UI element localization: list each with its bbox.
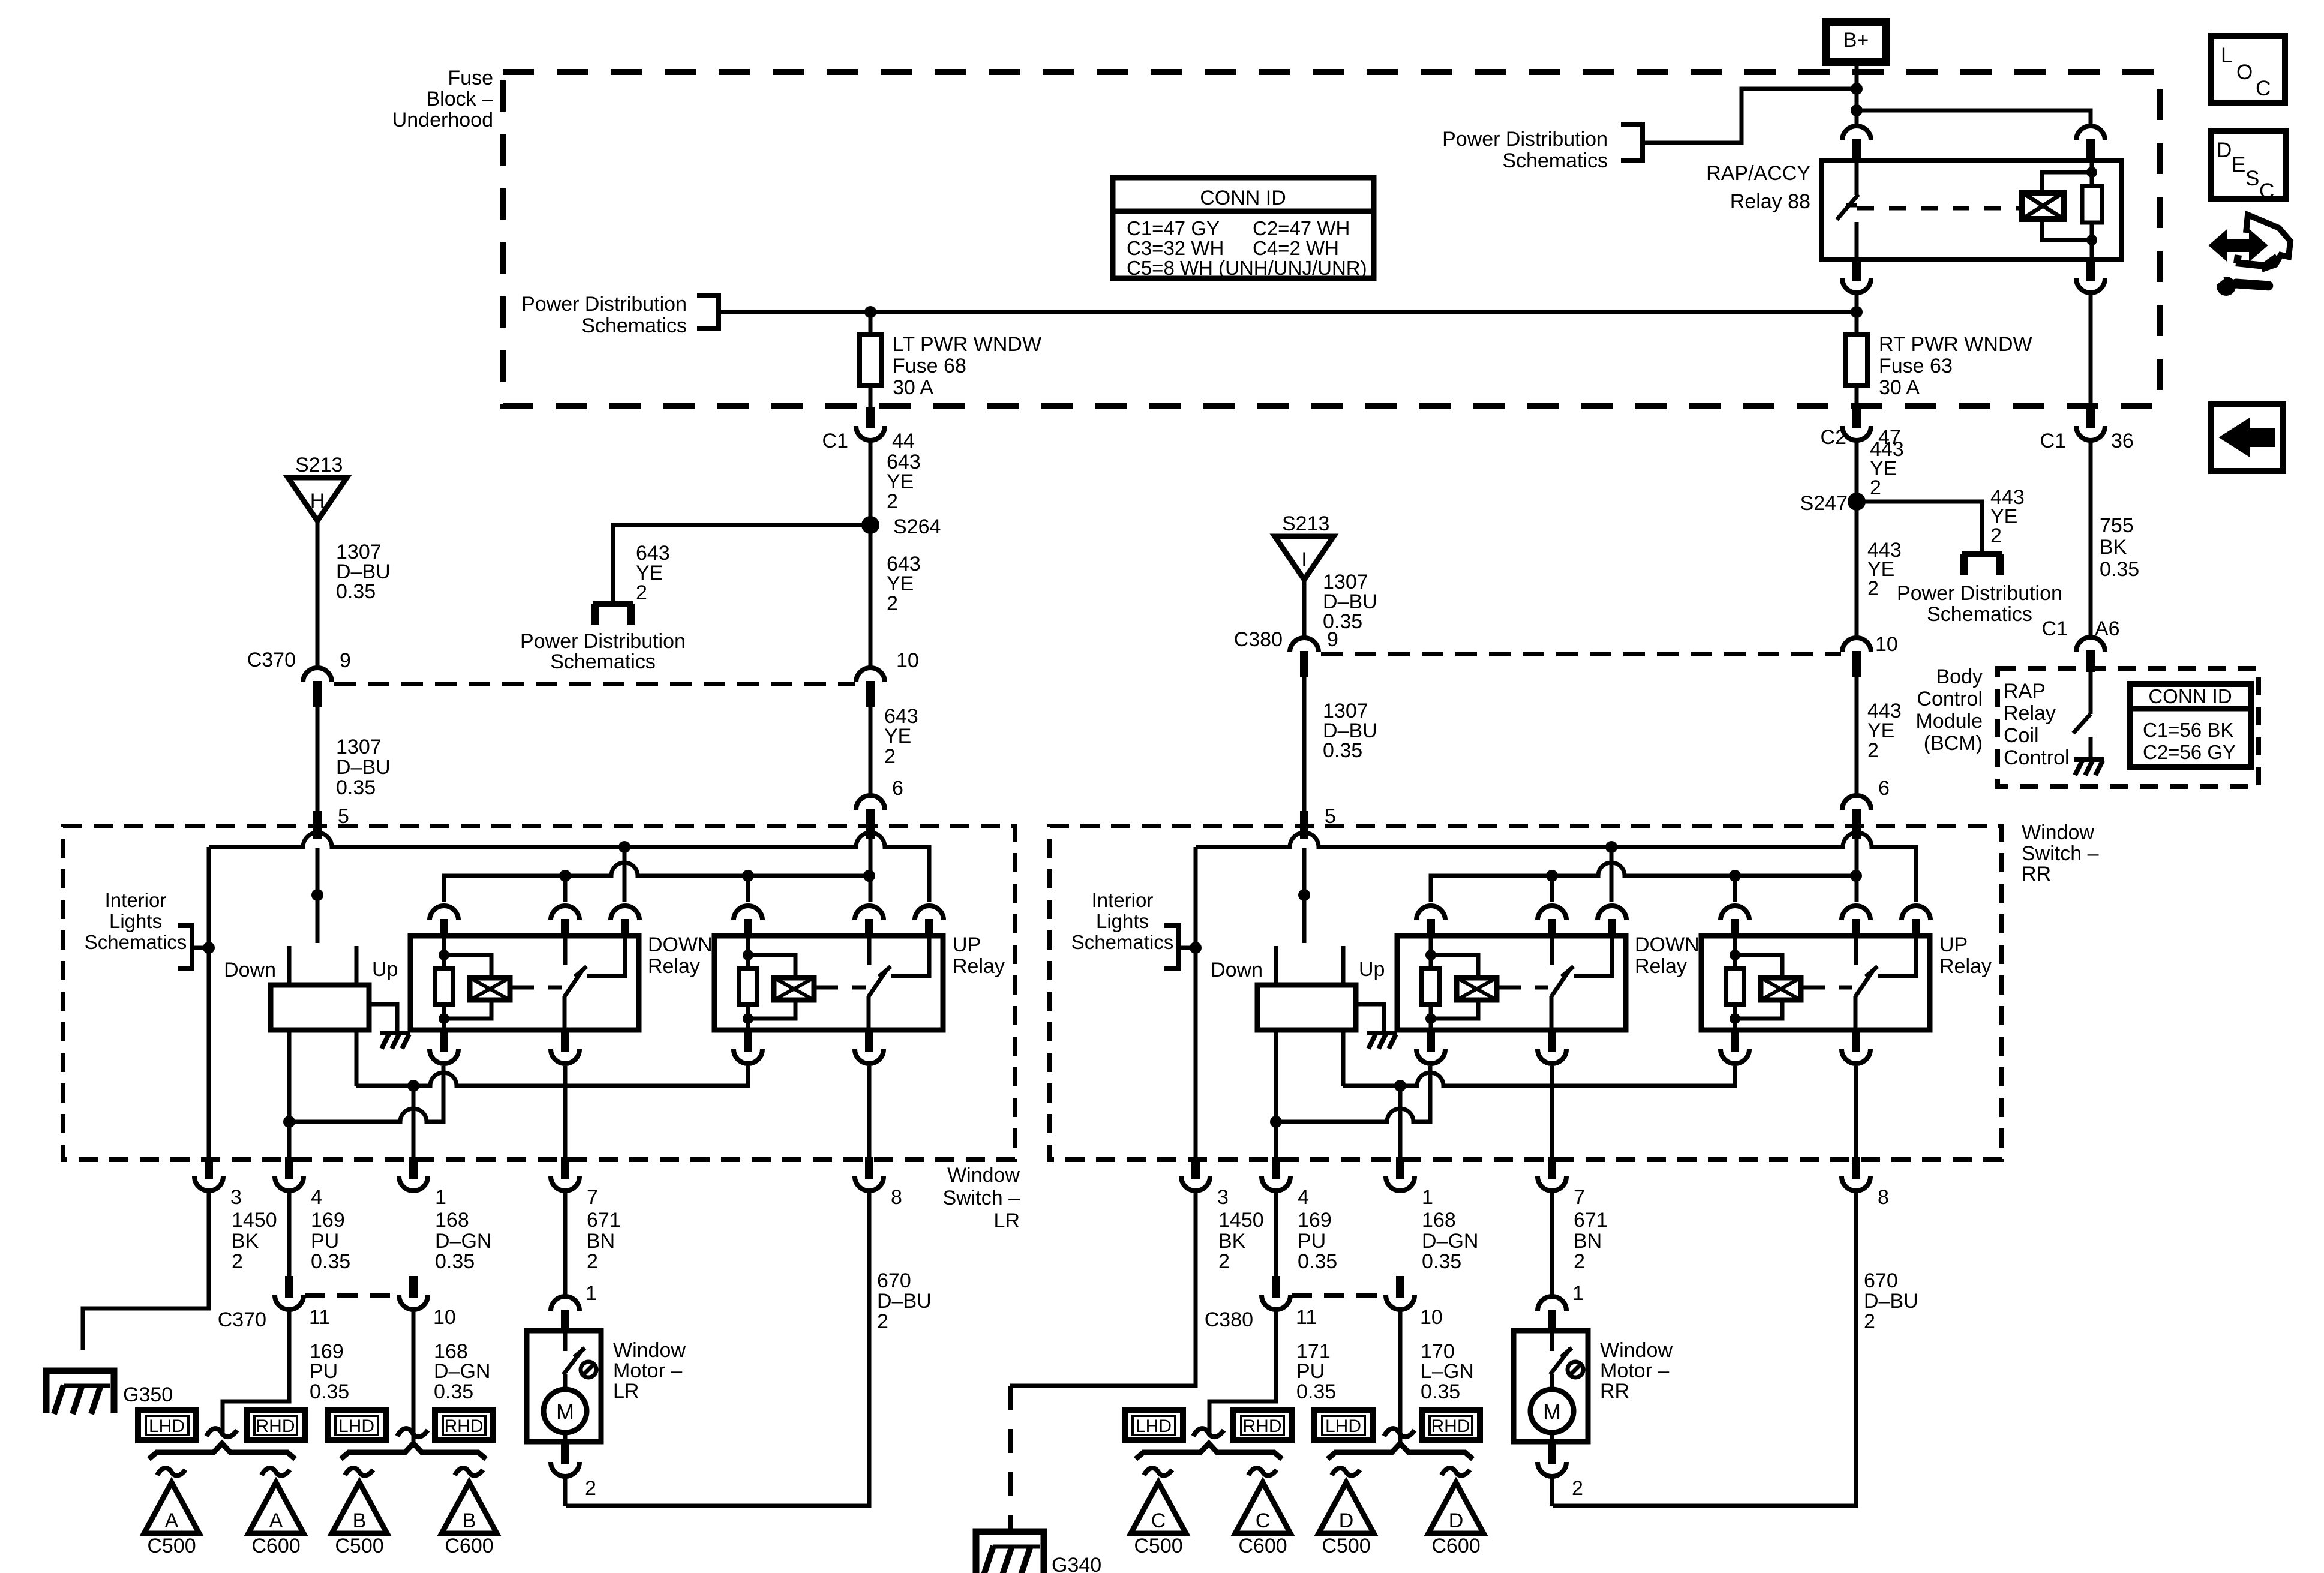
relay UP box (1701, 936, 1930, 1030)
svg-text:11: 11 (1296, 1306, 1317, 1329)
svg-text:DOWN: DOWN (1635, 933, 1700, 956)
wire 169 PU upper (1274, 1191, 1278, 1276)
wire rocker up leg (1341, 1030, 1346, 1086)
svg-text:1307: 1307 (336, 736, 382, 758)
brace 1 (149, 1443, 295, 1459)
svg-text:E: E (2232, 153, 2245, 176)
node relay feed (1851, 104, 1863, 116)
svg-text:2: 2 (232, 1250, 243, 1273)
window switch LR dashed box (63, 826, 1015, 1160)
svg-text:M: M (1543, 1400, 1561, 1424)
svg-text:Up: Up (372, 958, 398, 981)
splice S247 (1848, 493, 1866, 511)
svg-text:C500: C500 (147, 1535, 196, 1557)
relay UP actuator dashed link (814, 986, 822, 990)
ground G350 (46, 1371, 114, 1413)
svg-text:Power Distribution: Power Distribution (521, 293, 687, 316)
svg-text:36: 36 (2111, 430, 2134, 452)
svg-text:0.35: 0.35 (336, 580, 376, 603)
svg-text:Schematics: Schematics (1071, 931, 1174, 953)
svg-text:0.35: 0.35 (336, 776, 376, 799)
svg-text:0.35: 0.35 (435, 1250, 475, 1273)
svg-text:10: 10 (1875, 633, 1898, 656)
svg-text:C5=8 WH (UNH/UNJ/UNR): C5=8 WH (UNH/UNJ/UNR) (1127, 257, 1367, 279)
node LT fuse tap (864, 306, 876, 318)
window switch pins bottom (205, 1157, 213, 1179)
svg-text:G350: G350 (123, 1383, 173, 1406)
svg-text:44: 44 (892, 430, 915, 452)
brace 2 (341, 1443, 486, 1459)
brace 1 (1136, 1443, 1282, 1459)
relay DOWN switch (1550, 937, 1554, 965)
svg-text:C3=32 WH: C3=32 WH (1127, 237, 1224, 259)
svg-text:2: 2 (1218, 1250, 1230, 1273)
svg-text:10: 10 (433, 1306, 456, 1329)
window motor RR box (1514, 1331, 1588, 1442)
relay 88 switch (1855, 161, 1859, 195)
node pin6 feed (863, 870, 875, 882)
wire rocker up leg (355, 1030, 359, 1086)
svg-text:0.35: 0.35 (434, 1380, 473, 1403)
node up relay coil feed (742, 870, 754, 882)
svg-text:BK: BK (2100, 536, 2127, 559)
relay DOWN resistor (442, 937, 446, 969)
icon navigation hand (2211, 233, 2265, 258)
svg-text:(BCM): (BCM) (1924, 732, 1983, 755)
node pin1 tap (407, 1080, 419, 1092)
wire down leg to down relay coil (1276, 1066, 1430, 1122)
svg-text:C500: C500 (1322, 1535, 1370, 1557)
svg-text:Power Distribution: Power Distribution (1442, 128, 1608, 151)
resistor relay 88 (2082, 186, 2102, 223)
node down relay NO tap (618, 841, 630, 853)
inline connector C370 dashed (334, 682, 855, 686)
svg-text:RHD: RHD (445, 1416, 484, 1436)
relay DOWN pin connectors bottom (440, 1030, 448, 1052)
wire relay 87 to feed node (1855, 293, 1859, 314)
wire 643 YE lower (869, 707, 873, 797)
pin connector relay 88 pin 86 (2076, 126, 2105, 140)
svg-text:2: 2 (887, 592, 898, 615)
wire up relay common to pin8 (867, 1066, 872, 1160)
relay UP switch (1854, 937, 1858, 965)
svg-text:Interior: Interior (105, 889, 167, 911)
svg-text:6: 6 (892, 777, 903, 800)
node down relay common feed (1546, 870, 1558, 882)
svg-text:A: A (269, 1509, 283, 1532)
svg-text:RR: RR (1600, 1380, 1629, 1403)
wire power distribution to B+ node (1643, 89, 1851, 143)
svg-text:Power Distribution: Power Distribution (1897, 582, 2062, 605)
wire rocker down leg (287, 1030, 292, 1160)
triangle connector C C500 (1131, 1482, 1186, 1533)
svg-text:LHD: LHD (1136, 1416, 1172, 1436)
svg-text:30 A: 30 A (1879, 376, 1920, 399)
svg-text:0.35: 0.35 (311, 1250, 350, 1273)
relay UP box (714, 936, 943, 1030)
relay UP resistor (1733, 937, 1737, 969)
svg-text:2: 2 (877, 1310, 888, 1333)
relay UP pin connectors bottom (744, 1030, 752, 1052)
svg-text:9: 9 (1327, 628, 1338, 651)
offpage power distribution left (593, 601, 633, 607)
wire 643 YE to C370 10 (869, 525, 873, 669)
triangle connector A C500 (144, 1482, 199, 1533)
wire branch to power distribution right (1857, 502, 1982, 552)
svg-text:0.35: 0.35 (1298, 1250, 1337, 1273)
svg-text:LR: LR (994, 1209, 1020, 1232)
relay UP resistor (746, 937, 750, 969)
wire to relay coil pin (1857, 110, 2091, 125)
svg-text:C500: C500 (1134, 1535, 1182, 1557)
wire rocker down leg (1274, 1030, 1278, 1160)
rocker ground (380, 1031, 410, 1035)
wire pin1 feed (1398, 1086, 1403, 1160)
svg-text:1: 1 (1572, 1282, 1584, 1305)
svg-text:LR: LR (613, 1380, 639, 1403)
svg-text:D–BU: D–BU (1864, 1290, 1918, 1313)
battery feed B+ terminal (1826, 22, 1886, 62)
wire 671 BN to motor (1550, 1191, 1554, 1296)
rocker switch contacts (1274, 946, 1278, 985)
svg-text:Up: Up (1359, 958, 1385, 981)
triangle connector B C600 (442, 1482, 497, 1533)
svg-text:C1: C1 (2042, 617, 2068, 640)
svg-text:8: 8 (891, 1186, 902, 1209)
wire 1307 D-BU lower left (316, 707, 320, 811)
svg-text:UP: UP (1939, 933, 1968, 956)
svg-text:PU: PU (311, 1230, 339, 1253)
svg-text:0.35: 0.35 (1323, 739, 1362, 762)
svg-text:Switch –: Switch – (943, 1187, 1020, 1209)
svg-text:I: I (1301, 548, 1307, 571)
window motor M (563, 1374, 568, 1391)
svg-text:2: 2 (1867, 577, 1879, 600)
svg-text:UP: UP (953, 933, 981, 956)
splice crossover 1 (1193, 1428, 1224, 1437)
box RHD 1 (1233, 1410, 1292, 1440)
wire coil to resistor bottom (2042, 219, 2092, 240)
inline connector lower dashed (1292, 1293, 1385, 1298)
svg-text:H: H (310, 490, 325, 512)
svg-text:G340: G340 (1052, 1554, 1101, 1573)
svg-text:C370: C370 (218, 1308, 266, 1331)
svg-text:D–GN: D–GN (434, 1360, 490, 1383)
wire coil to resistor top (2042, 172, 2092, 193)
svg-text:PU: PU (1298, 1230, 1326, 1253)
svg-text:C600: C600 (1238, 1535, 1287, 1557)
svg-text:S264: S264 (893, 515, 941, 538)
svg-text:Fuse 68: Fuse 68 (893, 355, 966, 377)
wire ground rail left leg (1194, 847, 1198, 1160)
conn id table BCM (2130, 684, 2251, 767)
svg-text:B+: B+ (1843, 29, 1869, 52)
wire motor pin 2 (1550, 1476, 1554, 1506)
wire switch feed line (1431, 863, 1856, 902)
svg-text:A: A (165, 1509, 179, 1532)
svg-text:RR: RR (2022, 863, 2051, 885)
inline connector C380 dashed (1321, 652, 1841, 656)
pin connector relay 88 pin 85 out (2086, 259, 2095, 281)
svg-text:2: 2 (887, 490, 898, 513)
wire main feed bus (719, 310, 1857, 314)
svg-text:L: L (2221, 44, 2232, 67)
wire up leg to up relay coil (356, 1066, 748, 1086)
svg-text:B: B (353, 1509, 367, 1532)
svg-text:1450: 1450 (1218, 1209, 1264, 1232)
svg-text:Relay: Relay (2004, 702, 2056, 725)
connector C1 pin 44 (866, 407, 875, 428)
relay 88 coil (2022, 193, 2064, 219)
svg-text:3: 3 (230, 1186, 242, 1209)
svg-text:Window: Window (1600, 1339, 1673, 1362)
rocker ground tab (369, 1004, 397, 1031)
connector window motor pin 2 (1548, 1443, 1556, 1464)
svg-text:10: 10 (896, 649, 919, 672)
wire 1307 D-BU upper right (1302, 580, 1307, 639)
relay DOWN box (410, 936, 639, 1030)
svg-text:RAP/ACCY: RAP/ACCY (1706, 162, 1810, 185)
box RHD 1 (247, 1410, 305, 1440)
box LHD 2 (1314, 1410, 1373, 1440)
triangle connector C C600 (1235, 1482, 1290, 1533)
svg-text:LHD: LHD (1325, 1416, 1361, 1436)
svg-text:D–BU: D–BU (336, 756, 391, 779)
relay DOWN switch (563, 937, 568, 965)
wire to relay switch pin (1855, 89, 1859, 127)
relay 88 actuator dashed link (1857, 206, 2022, 211)
svg-text:C500: C500 (335, 1535, 383, 1557)
svg-text:CONN ID: CONN ID (1200, 187, 1286, 209)
relay DOWN pin connectors top (430, 906, 458, 920)
svg-text:Schematics: Schematics (1502, 149, 1608, 172)
svg-text:BN: BN (1574, 1230, 1602, 1253)
svg-text:Fuse: Fuse (448, 67, 493, 89)
rocker switch body (271, 985, 369, 1030)
wire 1450 BK to G350 (83, 1191, 209, 1329)
svg-text:C2: C2 (1821, 426, 1846, 449)
svg-text:0.35: 0.35 (1421, 1380, 1460, 1403)
svg-text:Relay: Relay (953, 955, 1005, 978)
relay DOWN pin connectors bottom (1427, 1030, 1435, 1052)
node interior lights tap (203, 942, 215, 954)
svg-text:2: 2 (1574, 1250, 1585, 1273)
wire pin1 feed (412, 1086, 416, 1160)
box LHD 1 (138, 1410, 196, 1440)
svg-text:Coil: Coil (2004, 724, 2039, 747)
wire 169 PU upper (287, 1191, 292, 1276)
svg-text:3: 3 (1217, 1186, 1229, 1209)
wire down relay NO feed (623, 847, 627, 902)
svg-text:Down: Down (1211, 959, 1263, 981)
svg-text:670: 670 (1864, 1269, 1898, 1292)
relay UP coil (748, 955, 795, 978)
wire ground rail left leg (207, 847, 211, 1160)
svg-text:Control: Control (1917, 688, 1983, 710)
svg-text:Fuse 63: Fuse 63 (1879, 355, 1953, 377)
wire resistor line (2090, 161, 2094, 186)
svg-text:BK: BK (1218, 1230, 1246, 1253)
box LHD 2 (328, 1410, 386, 1440)
svg-text:C1: C1 (2040, 430, 2066, 452)
rocker ground tab (1356, 1004, 1384, 1031)
pin connector relay 88 pin 87 out (1852, 259, 1861, 281)
node RT fuse tap (1851, 306, 1863, 318)
svg-text:1: 1 (585, 1282, 597, 1305)
wire 443 YE to C380 10 (1855, 502, 1859, 639)
svg-text:Window: Window (947, 1164, 1020, 1187)
svg-text:LT PWR WNDW: LT PWR WNDW (893, 333, 1041, 356)
svg-text:C1=56 BK: C1=56 BK (2143, 719, 2233, 741)
node coil bottom (2086, 235, 2097, 245)
svg-text:168: 168 (1422, 1209, 1456, 1232)
svg-text:D: D (1449, 1509, 1464, 1532)
conn id table underhood (1113, 178, 1374, 278)
relay DOWN coil (1431, 955, 1478, 978)
svg-text:S247: S247 (1800, 492, 1848, 515)
svg-text:Relay: Relay (648, 955, 700, 978)
svg-text:CONN ID: CONN ID (2148, 685, 2232, 707)
node pin6 feed (1850, 870, 1862, 882)
pin connector relay 88 pin 30 (1842, 126, 1871, 140)
svg-text:Relay: Relay (1939, 955, 1992, 978)
svg-text:LHD: LHD (149, 1416, 185, 1436)
svg-text:C600: C600 (1431, 1535, 1480, 1557)
svg-text:671: 671 (587, 1209, 621, 1232)
svg-text:6: 6 (1878, 777, 1890, 800)
fuse block underhood dashed box (503, 72, 2160, 406)
svg-text:C4=2 WH: C4=2 WH (1253, 237, 1339, 259)
svg-text:1450: 1450 (232, 1209, 277, 1232)
box RHD 2 (435, 1410, 493, 1440)
svg-text:RHD: RHD (1243, 1416, 1282, 1436)
svg-text:Schematics: Schematics (550, 650, 656, 673)
svg-text:0.35: 0.35 (1296, 1380, 1336, 1403)
node splice below B+ (1851, 83, 1863, 95)
svg-text:RT PWR WNDW: RT PWR WNDW (1879, 333, 2032, 356)
wire down leg to down relay coil (289, 1066, 443, 1122)
svg-text:BK: BK (232, 1230, 259, 1253)
wire 443 YE from C2 47 (1855, 440, 1859, 502)
box RHD 2 (1422, 1410, 1480, 1440)
relay RAP/ACCY 88 box (1822, 161, 2121, 259)
svg-text:C2=47 WH: C2=47 WH (1253, 217, 1350, 239)
svg-text:S: S (2245, 167, 2259, 190)
node pin1 tap (1394, 1080, 1406, 1092)
connector C2 pin 47 (1852, 407, 1861, 428)
rocker switch body (1257, 985, 1356, 1030)
svg-text:Lights: Lights (109, 910, 162, 932)
splice crossover 1 (206, 1428, 237, 1437)
svg-text:670: 670 (877, 1269, 911, 1292)
svg-text:Block –: Block – (427, 88, 494, 110)
svg-text:O: O (2236, 61, 2253, 84)
svg-text:1: 1 (1422, 1186, 1433, 1209)
svg-text:D–BU: D–BU (877, 1290, 932, 1313)
rocker switch contacts (287, 946, 292, 985)
svg-text:0.35: 0.35 (310, 1380, 349, 1403)
wire 1307 D-BU lower right (1302, 677, 1307, 811)
relay DOWN coil (444, 955, 491, 978)
offpage power distribution right (1962, 551, 2002, 557)
svg-text:PU: PU (1296, 1360, 1325, 1383)
svg-text:C: C (2259, 179, 2274, 203)
svg-text:671: 671 (1574, 1209, 1608, 1232)
svg-text:RAP: RAP (2004, 680, 2046, 703)
svg-text:S213: S213 (295, 454, 343, 476)
node coil top (2086, 167, 2097, 178)
rocker switch pole (311, 889, 323, 901)
wire switch feed line (444, 863, 869, 902)
relay DOWN actuator dashed link (510, 986, 518, 990)
relay DOWN actuator dashed link (1497, 986, 1505, 990)
wire motor pin 2 (563, 1476, 568, 1506)
svg-text:Motor –: Motor – (613, 1359, 682, 1382)
ground rail (1196, 833, 1916, 902)
ground G340 (976, 1532, 1044, 1573)
svg-text:2: 2 (636, 581, 647, 604)
relay UP pin connectors top (1721, 906, 1749, 920)
BCM driver switch (2089, 672, 2093, 714)
window switch RR dashed box (1050, 826, 2002, 1160)
rocker ground (1367, 1031, 1397, 1035)
svg-text:D: D (1339, 1509, 1354, 1532)
svg-text:YE: YE (884, 725, 911, 748)
BCM ground (2074, 757, 2104, 762)
wire 1307 D-BU upper left (316, 521, 320, 669)
svg-text:L–GN: L–GN (1421, 1360, 1474, 1383)
svg-text:Window: Window (2022, 821, 2094, 844)
triangle connector A C600 (248, 1482, 304, 1533)
svg-text:2: 2 (1864, 1310, 1875, 1333)
wire 443 YE lower (1855, 677, 1859, 797)
relay UP coil (1735, 955, 1782, 978)
svg-text:Window: Window (613, 1339, 686, 1362)
connector window motor pin 2 (561, 1443, 569, 1464)
svg-text:2: 2 (585, 1477, 596, 1500)
triangle connector D C500 (1319, 1482, 1374, 1533)
wire B+ down (1855, 62, 1859, 90)
svg-text:B: B (463, 1509, 476, 1532)
svg-text:C600: C600 (445, 1535, 493, 1557)
node up relay coil feed (1729, 870, 1741, 882)
svg-text:Interior: Interior (1092, 889, 1154, 911)
wire up leg to up relay coil (1343, 1066, 1735, 1086)
fuse LT PWR WNDW 68 (869, 312, 873, 334)
svg-text:RHD: RHD (1431, 1416, 1470, 1436)
svg-text:10: 10 (1420, 1306, 1443, 1329)
window motor M (1550, 1374, 1554, 1391)
svg-text:7: 7 (587, 1186, 598, 1209)
svg-text:DOWN: DOWN (648, 933, 713, 956)
window motor thermal switch (1550, 1331, 1554, 1351)
svg-text:Body: Body (1936, 665, 1983, 688)
triangle connector B C500 (332, 1482, 387, 1533)
svg-text:LHD: LHD (338, 1416, 374, 1436)
svg-text:0.35: 0.35 (1422, 1250, 1461, 1273)
svg-text:2: 2 (587, 1250, 598, 1273)
svg-text:D–GN: D–GN (1422, 1230, 1478, 1253)
svg-text:1: 1 (435, 1186, 446, 1209)
svg-text:9: 9 (340, 649, 351, 672)
relay UP pin connectors bottom (1731, 1030, 1739, 1052)
svg-text:8: 8 (1878, 1186, 1889, 1209)
svg-text:C380: C380 (1205, 1308, 1253, 1331)
node down relay NO tap (1605, 841, 1617, 853)
inline connector lower dashed (305, 1293, 398, 1298)
svg-text:RHD: RHD (256, 1416, 295, 1436)
icon LOC (2211, 36, 2285, 103)
